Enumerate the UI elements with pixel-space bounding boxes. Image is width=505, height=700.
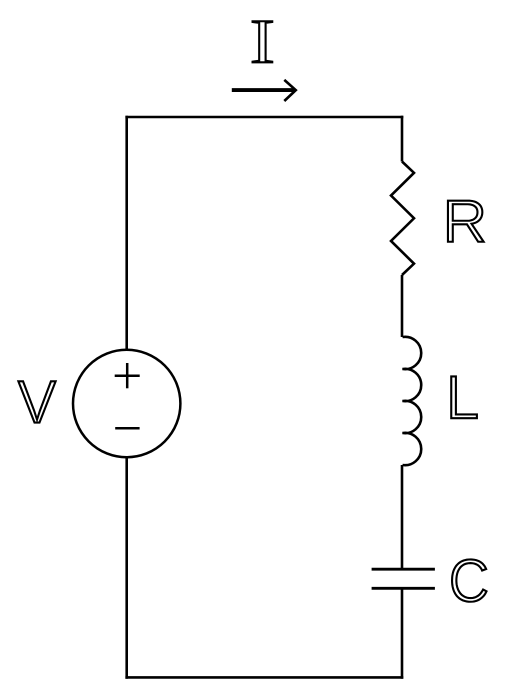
label V: [18, 381, 55, 422]
wire right vertical upper (top-right corner to resistor): [401, 116, 404, 162]
label R: [448, 201, 484, 242]
wire resistor to inductor: [401, 275, 404, 337]
resistor R zigzag: [391, 162, 414, 276]
current arrow: [232, 80, 296, 101]
capacitor C bottom plate: [372, 587, 435, 590]
label C: [452, 559, 486, 601]
inductor L coils: [403, 337, 422, 465]
label L: [451, 376, 477, 418]
wire bottom horizontal: [125, 676, 403, 679]
wire inductor to capacitor: [401, 465, 404, 569]
wire left vertical lower (source bottom to bottom-left corner): [125, 457, 128, 679]
wire left vertical upper (source top to top-left corner): [125, 116, 128, 350]
plus sign: [115, 363, 140, 388]
voltage source V circle: [73, 350, 180, 457]
wire top horizontal: [125, 116, 403, 119]
minus sign: [115, 427, 139, 430]
label I: [253, 21, 273, 62]
capacitor C top plate: [372, 568, 435, 571]
wire capacitor to bottom-right corner: [401, 588, 404, 678]
